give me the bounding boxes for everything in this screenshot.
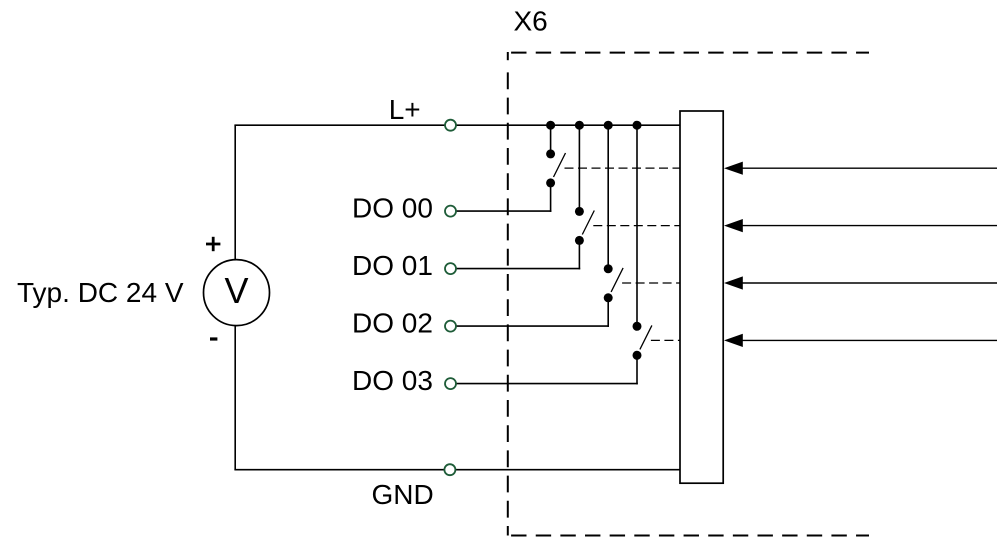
switch S4 blade bbox=[640, 325, 652, 349]
terminal DO 03 bbox=[445, 378, 456, 389]
arrow 4 head bbox=[724, 334, 743, 347]
switch S4 lower contact bbox=[633, 351, 642, 360]
terminal DO 01 bbox=[445, 263, 456, 274]
dashed boundary X6 top bbox=[508, 52, 869, 54]
switch S4 upper contact bbox=[633, 322, 642, 331]
terminal GND bbox=[444, 464, 455, 475]
wire left vertical top (source + to L+ rail) bbox=[234, 125, 236, 259]
junction dot rail 1 bbox=[546, 121, 555, 130]
wire DO 03 horizontal bbox=[450, 383, 638, 385]
svg-text:GND: GND bbox=[372, 479, 434, 510]
wire DO 01 horizontal bbox=[450, 268, 580, 270]
branch wire switch 4 upper bbox=[636, 125, 638, 326]
svg-text:V: V bbox=[224, 270, 248, 311]
dashed boundary X6 bottom bbox=[508, 535, 869, 537]
junction dot rail 4 bbox=[633, 121, 642, 130]
switch S2 blade bbox=[582, 211, 594, 235]
control dashed line 4 bbox=[651, 339, 680, 341]
branch wire switch 4 lower bbox=[636, 355, 638, 384]
switch S2 lower contact bbox=[575, 236, 584, 245]
junction dot rail 3 bbox=[604, 121, 613, 130]
arrow 4 line bbox=[742, 339, 997, 341]
switch S3 blade bbox=[611, 268, 623, 292]
svg-text:L+: L+ bbox=[389, 94, 421, 125]
wire DO 02 horizontal bbox=[450, 325, 609, 327]
terminal DO 00 bbox=[445, 206, 456, 217]
branch wire switch 3 upper bbox=[607, 125, 609, 269]
minus sign of source bbox=[210, 337, 217, 340]
switch S1 lower contact bbox=[546, 178, 555, 187]
switch S3 upper contact bbox=[604, 264, 613, 273]
branch wire switch 2 lower bbox=[578, 240, 580, 269]
switch S1 blade bbox=[554, 153, 566, 177]
wire DO 00 horizontal bbox=[450, 210, 551, 212]
svg-text:DO 01: DO 01 bbox=[352, 250, 433, 281]
arrow 3 line bbox=[742, 282, 997, 284]
arrow 1 head bbox=[724, 162, 743, 175]
wire GND horizontal bbox=[234, 469, 680, 471]
voltage source U1 circle bbox=[204, 260, 270, 326]
svg-text:DO 03: DO 03 bbox=[352, 365, 433, 396]
svg-text:Typ. DC 24 V: Typ. DC 24 V bbox=[17, 277, 184, 308]
switch S2 upper contact bbox=[575, 207, 584, 216]
arrow 1 line bbox=[742, 167, 997, 169]
module block bbox=[680, 111, 723, 483]
terminal L+ bbox=[445, 120, 456, 131]
svg-text:X6: X6 bbox=[514, 6, 548, 37]
control dashed line 3 bbox=[622, 282, 680, 284]
branch wire switch 2 upper bbox=[578, 125, 580, 211]
svg-text:DO 02: DO 02 bbox=[352, 308, 433, 339]
branch wire switch 1 upper bbox=[550, 125, 552, 154]
branch wire switch 3 lower bbox=[607, 298, 609, 327]
arrow 2 head bbox=[724, 219, 743, 232]
svg-text:DO 00: DO 00 bbox=[352, 193, 433, 224]
plus sign of source bbox=[206, 237, 220, 251]
switch S3 lower contact bbox=[604, 293, 613, 302]
control dashed line 2 bbox=[593, 225, 680, 227]
wire left vertical bottom (source - to GND rail) bbox=[234, 326, 236, 470]
control dashed line 1 bbox=[565, 167, 681, 169]
junction dot rail 2 bbox=[575, 121, 584, 130]
switch S1 upper contact bbox=[546, 149, 555, 158]
terminal DO 02 bbox=[445, 321, 456, 332]
arrow 3 head bbox=[724, 276, 743, 289]
arrow 2 line bbox=[742, 225, 997, 227]
dashed boundary X6 left bbox=[507, 52, 509, 60]
wire L+ horizontal bbox=[234, 124, 680, 126]
branch wire switch 1 lower bbox=[550, 183, 552, 212]
